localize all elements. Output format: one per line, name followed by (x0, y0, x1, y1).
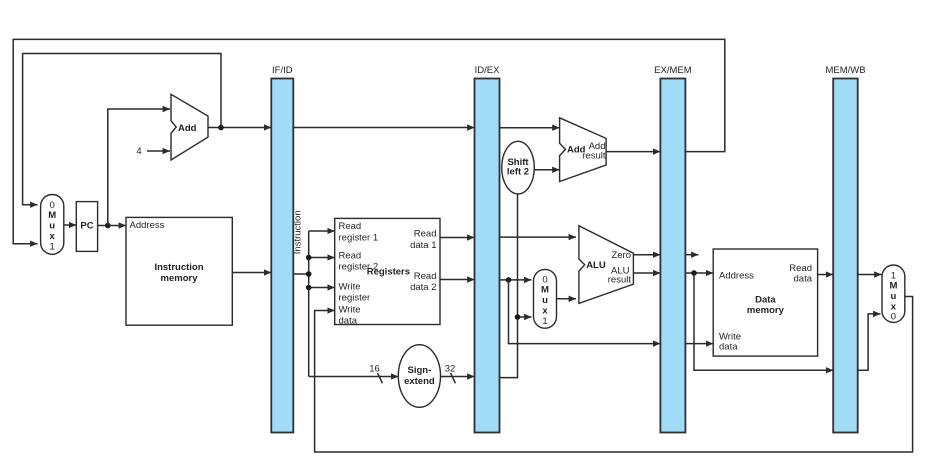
wire: branch Add result to EX/MEM (606, 151, 660, 153)
register file: Registers (335, 218, 440, 324)
svg-text:data: data (719, 342, 738, 353)
wire: PC output to instruction memory Address (98, 225, 126, 227)
svg-text:1: 1 (542, 316, 547, 327)
svg-text:Instruction: Instruction (293, 210, 304, 254)
svg-text:extend: extend (404, 376, 435, 387)
svg-text:data: data (339, 316, 358, 327)
pipeline register EX/MEM (660, 79, 685, 433)
svg-text:ALU: ALU (586, 260, 606, 271)
wire: Read data 2 to ID/EX (440, 279, 475, 281)
svg-text:Address: Address (130, 220, 165, 231)
adder Add (branch target) (560, 118, 607, 182)
svg-text:PC: PC (80, 220, 93, 231)
svg-text:u: u (890, 291, 896, 302)
wire: instruction bus from IF/ID (293, 273, 308, 275)
wire: ALU Zero to EX/MEM (633, 254, 660, 256)
svg-text:data 1: data 1 (410, 240, 436, 251)
wire: mux M2 output to ALU (557, 298, 577, 300)
svg-text:Read: Read (339, 250, 362, 261)
svg-text:x: x (50, 231, 56, 242)
svg-text:16: 16 (369, 364, 380, 375)
mux M2 (ALUSrc) (534, 269, 557, 328)
memory: Instruction memory (126, 217, 232, 325)
wire: Read data 2 from ID/EX to mux M2 input 0 and memory write data (500, 279, 532, 281)
svg-text:data 2: data 2 (410, 282, 436, 293)
svg-text:data: data (794, 274, 813, 285)
node: instruction junction read register 2 (306, 255, 312, 261)
adder Add (PC+4) (171, 94, 208, 160)
memory: Data memory (713, 249, 817, 356)
svg-text:Read: Read (414, 271, 437, 282)
svg-text:M: M (889, 281, 897, 292)
svg-text:memory: memory (161, 273, 199, 284)
wire: ALU result from EX/MEM to data memory Address (685, 272, 713, 274)
svg-text:u: u (49, 221, 55, 232)
svg-text:u: u (542, 295, 548, 306)
svg-text:x: x (542, 306, 548, 317)
svg-text:Add: Add (178, 123, 197, 134)
register PC (76, 202, 97, 252)
wire: immediate branch to mux M2 input 1 (518, 316, 532, 318)
wire: instruction memory output to IF/ID (232, 272, 271, 274)
alu ALU (579, 226, 634, 304)
wire: write back from mux M3 to Registers write data (315, 297, 913, 453)
node: instruction junction main (306, 271, 312, 277)
wire: data memory read data to MEM/WB (818, 274, 834, 276)
mux M1 (PC source) (41, 195, 64, 255)
svg-text:M: M (541, 285, 549, 296)
svg-text:Read: Read (339, 221, 362, 232)
wire: mux M1 output to PC (64, 224, 77, 226)
svg-text:EX/MEM: EX/MEM (654, 65, 692, 76)
svg-text:Registers: Registers (367, 267, 410, 278)
svg-text:Address: Address (719, 271, 754, 282)
node: PC output junction (105, 223, 111, 229)
svg-text:left 2: left 2 (507, 166, 529, 177)
svg-text:ID/EX: ID/EX (475, 65, 500, 76)
svg-text:register 1: register 1 (339, 232, 379, 243)
svg-text:4: 4 (136, 146, 141, 157)
wire: to Write register (309, 287, 335, 289)
sign extender: Sign-extend (398, 345, 440, 408)
wire: write data from EX/MEM to data memory (685, 343, 713, 345)
svg-text:memory: memory (747, 305, 785, 316)
wire: PC+4 from ID/EX to branch Add (500, 127, 560, 129)
node: Add output junction (218, 125, 224, 131)
wire: PC+4 feedback from Add output to PC mux input 0 (23, 54, 221, 205)
wire: Shift left 2 output to branch Add (534, 169, 559, 171)
svg-text:32: 32 (445, 364, 456, 375)
pipeline register IF/ID (271, 79, 293, 433)
svg-text:Write: Write (339, 304, 361, 315)
svg-text:Zero: Zero (611, 250, 631, 261)
svg-text:IF/ID: IF/ID (272, 65, 293, 76)
wire: instruction vertical distribution (308, 231, 310, 377)
pipeline register ID/EX (475, 79, 500, 433)
wire: ALU result down and right to MEM/WB (694, 273, 833, 370)
wire: sign-extend output to ID/EX (441, 376, 475, 378)
wire: to Read register 2 (309, 257, 335, 259)
svg-text:0: 0 (891, 312, 896, 323)
svg-text:Data: Data (755, 295, 776, 306)
node: ALU result junction (691, 270, 697, 276)
svg-text:1: 1 (50, 242, 55, 253)
svg-text:Write: Write (339, 281, 361, 292)
wire: immediate from ID/EX up to Shift left 2 and ALUSrc mux (500, 194, 518, 378)
wire: PC value up to Add input (108, 109, 170, 226)
wire: ALU result to EX/MEM (633, 272, 660, 274)
shifter: Shift left 2 (502, 141, 535, 194)
wire: to Read register 1 (309, 230, 335, 232)
svg-text:M: M (48, 210, 56, 221)
wire: read data from MEM/WB to mux M3 input 1 (858, 274, 882, 276)
wire: Add output to IF/ID (208, 127, 271, 129)
svg-text:result: result (582, 150, 606, 161)
node: read data 2 junction (506, 277, 512, 283)
mux M3 (write back) (882, 265, 905, 322)
svg-text:Instruction: Instruction (154, 262, 203, 273)
wire: constant 4 to Add input (147, 150, 170, 152)
wire: ALU result from MEM/WB to mux M3 input 0 (858, 314, 881, 370)
svg-text:Sign-: Sign- (408, 365, 432, 376)
node: instruction junction write register (306, 285, 312, 291)
wire: PC+4 from IF/ID to ID/EX (293, 127, 474, 129)
svg-text:result: result (608, 275, 632, 286)
bus width slash 32 (451, 373, 456, 383)
wire: Zero out of EX/MEM (685, 254, 698, 256)
svg-text:Read: Read (789, 263, 812, 274)
bus width slash 16 (378, 373, 383, 383)
wire: read data 2 down and right to EX/MEM (509, 280, 661, 344)
wire: branch feedback from EX/MEM to PC mux input 1 (13, 39, 725, 243)
wire: Read data 1 to ID/EX (440, 237, 475, 239)
wire: immediate to sign-extend (309, 376, 399, 378)
svg-text:Read: Read (414, 229, 437, 240)
svg-text:MEM/WB: MEM/WB (825, 65, 865, 76)
wire: Read data 1 from ID/EX to ALU (500, 236, 577, 238)
node: immediate junction (515, 314, 521, 320)
svg-text:register: register (339, 292, 371, 303)
pipeline register MEM/WB (833, 79, 858, 433)
